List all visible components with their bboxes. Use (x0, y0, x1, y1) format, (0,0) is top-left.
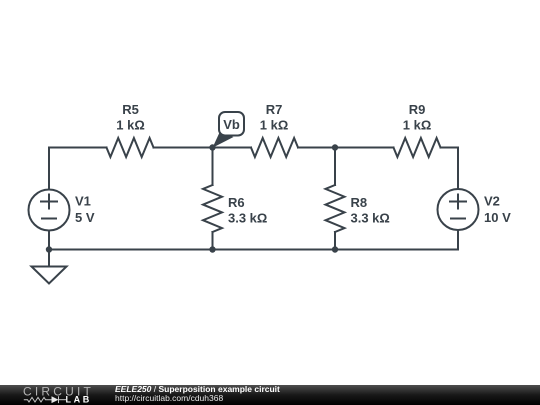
resistor R8 (326, 185, 345, 232)
svg-text:R5: R5 (122, 102, 139, 117)
node B junction dot (332, 144, 338, 150)
wire R8 to bottom rail (334, 232, 336, 250)
footer bar (0, 385, 540, 405)
svg-text:1 kΩ: 1 kΩ (260, 118, 289, 133)
resistor R7 (251, 138, 298, 157)
svg-text:V1: V1 (75, 194, 91, 209)
svg-text:R6: R6 (228, 195, 245, 210)
resistor R6 (203, 185, 222, 232)
svg-text:V2: V2 (484, 194, 500, 209)
wire node Vb down to R6 (212, 148, 214, 186)
R6 bottom junction dot (209, 246, 215, 252)
svg-text:LAB: LAB (66, 395, 92, 405)
svg-text:Vb: Vb (223, 117, 240, 132)
logo diode triangle (52, 396, 59, 403)
node Vb flag pointer (213, 133, 234, 148)
svg-text:5 V: 5 V (75, 210, 95, 225)
voltage source V2 (438, 189, 479, 230)
wire V2 bottom to rail (457, 230, 459, 250)
svg-text:1 kΩ: 1 kΩ (403, 118, 432, 133)
wire R9 to right corner down to V2 (441, 148, 459, 190)
svg-text:http://circuitlab.com/cduh368: http://circuitlab.com/cduh368 (115, 393, 223, 403)
resistor R9 (394, 138, 441, 157)
wire bottom rail (49, 249, 458, 251)
ground (48, 250, 50, 267)
wire R6 to bottom rail (212, 232, 214, 250)
svg-text:R7: R7 (266, 102, 283, 117)
svg-text:3.3 kΩ: 3.3 kΩ (351, 211, 390, 226)
wire R7 to node B (298, 147, 394, 149)
wire R5 to node Vb (154, 147, 252, 149)
R8 bottom junction dot (332, 246, 338, 252)
ground junction dot (46, 246, 52, 252)
node Vb junction dot (209, 144, 215, 150)
node Vb flag box (219, 112, 244, 136)
resistor R5 (107, 138, 154, 157)
svg-text:10 V: 10 V (484, 210, 511, 225)
svg-text:3.3 kΩ: 3.3 kΩ (228, 211, 267, 226)
svg-text:R9: R9 (409, 102, 426, 117)
wire V1 bottom to rail (48, 231, 50, 250)
svg-text:R8: R8 (351, 195, 368, 210)
logo resistor-diode glyph (24, 396, 66, 403)
wire node B down to R8 (334, 148, 336, 186)
voltage source V1 (29, 190, 70, 231)
wire top rail left segment (49, 148, 107, 190)
svg-text:1 kΩ: 1 kΩ (116, 118, 145, 133)
